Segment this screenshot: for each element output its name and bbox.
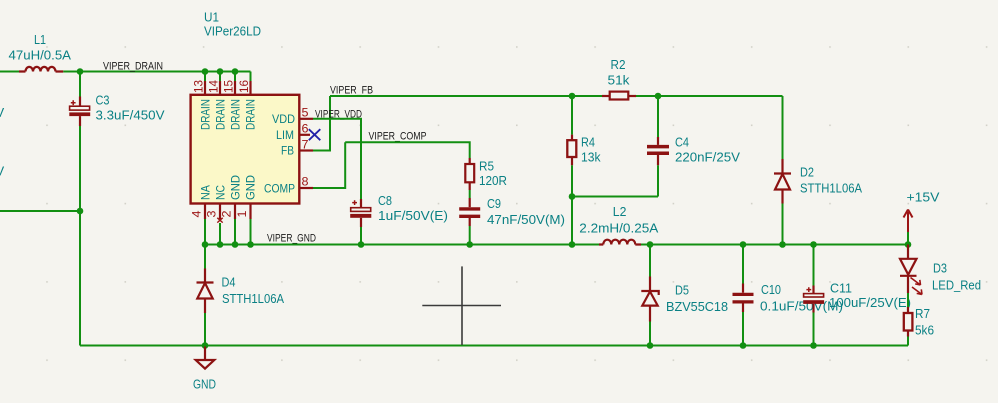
junction D5 xyxy=(647,241,654,248)
svg-text:51k: 51k xyxy=(608,72,631,87)
svg-text:L2: L2 xyxy=(613,204,627,219)
svg-text:FB: FB xyxy=(281,146,294,158)
junction D5 bottom xyxy=(647,342,654,349)
wire: viper gnd line xyxy=(205,244,599,246)
svg-text:D5: D5 xyxy=(675,282,689,297)
svg-text:47uH/0.5A: 47uH/0.5A xyxy=(9,48,72,63)
svg-text:+15V: +15V xyxy=(907,189,940,204)
svg-text:DRAIN: DRAIN xyxy=(200,99,212,130)
svg-text:C3: C3 xyxy=(96,93,110,108)
svg-text:V: V xyxy=(0,105,5,120)
svg-text:2: 2 xyxy=(222,211,234,218)
svg-text:STTH1L06A: STTH1L06A xyxy=(222,291,284,306)
svg-text:D2: D2 xyxy=(800,165,814,180)
wire: feedback line y=96 xyxy=(330,95,603,97)
IC U1 VIPer26LD body xyxy=(191,10,300,204)
wire: top drain rail left of L1 xyxy=(0,71,19,73)
wire: left input at y=211 xyxy=(0,210,80,212)
svg-text:220nF/25V: 220nF/25V xyxy=(675,149,740,164)
capacitor C10 xyxy=(733,245,844,346)
svg-text:4: 4 xyxy=(192,210,204,218)
svg-text:VIPer26LD: VIPer26LD xyxy=(204,24,261,39)
wire: bottom rail xyxy=(80,345,908,347)
pin 8 COMP xyxy=(299,187,313,189)
cursor crosshair xyxy=(422,266,501,345)
svg-text:COMP: COMP xyxy=(264,184,295,196)
svg-text:5k6: 5k6 xyxy=(915,323,934,338)
svg-text:DRAIN: DRAIN xyxy=(245,99,257,130)
svg-text:DRAIN: DRAIN xyxy=(230,99,242,130)
svg-text:R5: R5 xyxy=(479,159,494,174)
junctions on gnd line xyxy=(202,241,209,248)
inductor L1 xyxy=(9,32,72,72)
svg-text:C9: C9 xyxy=(487,196,501,211)
LED D3 xyxy=(900,245,981,308)
svg-text:BZV55C18: BZV55C18 xyxy=(666,299,728,314)
junction at L1 / C3 xyxy=(77,68,84,75)
svg-text:L1: L1 xyxy=(34,32,46,47)
svg-text:VIPER_COMP: VIPER_COMP xyxy=(369,131,427,143)
power symbol +15V xyxy=(904,189,940,244)
svg-text:5: 5 xyxy=(302,108,309,120)
svg-text:120R: 120R xyxy=(479,173,507,188)
junctions at top drain pins xyxy=(202,68,209,75)
svg-text:DRAIN: DRAIN xyxy=(215,99,227,130)
pin 5 VDD xyxy=(299,118,313,120)
svg-text:D3: D3 xyxy=(933,260,947,275)
pin 7 FB xyxy=(299,149,313,151)
pin name DRAIN x4 xyxy=(200,99,257,130)
ground symbol GND xyxy=(193,346,216,392)
svg-text:GND: GND xyxy=(193,376,216,391)
no-connect X on pin 3 xyxy=(217,218,222,223)
wire: link to C4 bottom xyxy=(572,196,658,198)
U1 bottom pins 4,3,2,1 xyxy=(205,204,251,245)
svg-text:3.3uF/450V: 3.3uF/450V xyxy=(96,108,165,123)
svg-text:3: 3 xyxy=(207,211,219,218)
wire: fb line down to R4 xyxy=(571,96,573,135)
U1 top pins 13-16 wires xyxy=(205,72,251,95)
svg-text:13k: 13k xyxy=(581,149,601,164)
wire: L1 to U1 drain pins xyxy=(63,71,250,73)
resistor R2 xyxy=(602,57,636,100)
svg-text:47nF/50V(M): 47nF/50V(M) xyxy=(487,212,565,227)
svg-text:LED_Red: LED_Red xyxy=(932,277,981,292)
junction D4 bottom xyxy=(202,342,209,349)
wire: R2 to C4 top / D2 xyxy=(636,95,783,97)
junction R4/C4 bottom link xyxy=(569,193,576,200)
wire: C8 to gnd line xyxy=(360,227,362,245)
svg-text:C10: C10 xyxy=(761,282,781,297)
inductor L2 xyxy=(579,204,658,245)
pin 6 LIM xyxy=(299,134,310,136)
svg-text:GND: GND xyxy=(230,175,242,200)
svg-text:VIPER_DRAIN: VIPER_DRAIN xyxy=(103,61,163,73)
svg-text:C4: C4 xyxy=(675,134,689,149)
svg-text:D4: D4 xyxy=(222,274,236,289)
wire: C9 to gnd line xyxy=(469,226,471,245)
wire: VDD pin right then down to C8 xyxy=(313,119,361,199)
svg-text:VDD: VDD xyxy=(272,114,295,126)
capacitor C4 xyxy=(647,134,740,165)
wire: COMP pin to riser xyxy=(313,142,345,188)
junction R4 top xyxy=(569,93,576,100)
junction at (80,211) xyxy=(77,208,84,215)
svg-text:13: 13 xyxy=(194,80,206,93)
svg-text:2.2mH/0.25A: 2.2mH/0.25A xyxy=(579,221,658,236)
svg-text:VIPER_FB: VIPER_FB xyxy=(330,85,373,97)
svg-text:6: 6 xyxy=(302,124,309,136)
svg-text:14: 14 xyxy=(209,79,221,93)
resistor R5 xyxy=(465,158,507,190)
svg-text:1: 1 xyxy=(237,211,249,218)
wire: C4 down to link xyxy=(657,165,659,196)
svg-text:8: 8 xyxy=(302,177,309,189)
no-connect X on LIM xyxy=(309,129,321,140)
svg-text:V: V xyxy=(0,164,5,179)
junction C10 bottom xyxy=(740,342,747,349)
diode D4 xyxy=(197,245,285,346)
diode D2 xyxy=(774,96,862,245)
wire: fb line down to C4 xyxy=(657,96,659,137)
svg-text:STTH1L06A: STTH1L06A xyxy=(800,181,862,196)
svg-text:NA: NA xyxy=(200,185,212,200)
capacitor C3 xyxy=(69,93,165,127)
svg-text:R2: R2 xyxy=(611,57,626,72)
svg-text:1uF/50V(E): 1uF/50V(E) xyxy=(378,208,448,223)
svg-text:VIPER_GND: VIPER_GND xyxy=(267,232,316,244)
junction C11 bottom xyxy=(810,342,817,349)
wire: C3 down to left rail corner xyxy=(79,126,81,346)
junction C11 xyxy=(810,241,817,248)
resistor R7 xyxy=(904,306,934,346)
resistor R4 xyxy=(567,134,601,165)
svg-text:GND: GND xyxy=(245,175,257,200)
wire: R5 to C9 xyxy=(469,190,471,198)
junction C4 top xyxy=(655,93,662,100)
svg-text:LIM: LIM xyxy=(276,130,294,142)
svg-text:R4: R4 xyxy=(581,134,595,149)
svg-text:U1: U1 xyxy=(204,10,219,25)
capacitor C9 xyxy=(459,196,565,227)
svg-text:C8: C8 xyxy=(378,193,392,208)
wire: FB pin to riser xyxy=(313,96,330,151)
svg-text:R7: R7 xyxy=(915,306,930,321)
capacitor C8 xyxy=(350,193,448,227)
wire: junction down to C3 xyxy=(79,72,81,97)
wire: R4 down to gnd line xyxy=(571,165,573,244)
wire: L2 to output node xyxy=(641,244,908,246)
wire: comp line to R5 xyxy=(345,142,470,158)
svg-text:C11: C11 xyxy=(830,281,852,296)
svg-text:7: 7 xyxy=(302,140,309,152)
zener D5 xyxy=(641,245,728,346)
svg-text:100uF/25V(E): 100uF/25V(E) xyxy=(829,295,911,310)
svg-text:16: 16 xyxy=(239,80,251,93)
svg-text:NC: NC xyxy=(215,185,227,200)
junction C10 xyxy=(740,241,747,248)
svg-text:15: 15 xyxy=(224,80,236,93)
capacitor C11 xyxy=(803,245,911,346)
junction D2 bottom xyxy=(779,241,786,248)
junction output / +15V xyxy=(905,241,912,248)
